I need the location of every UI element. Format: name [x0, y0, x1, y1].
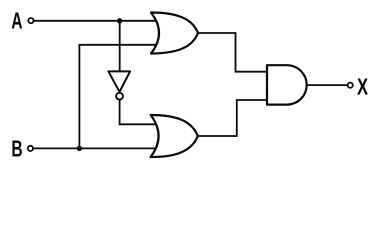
svg-text:B: B — [11, 137, 22, 163]
wire B junction to OR1 bottom input — [79, 45, 158, 149]
OR gate 1 — [151, 13, 198, 54]
wire B input to OR2 bottom input — [31, 147, 159, 149]
wire OR1 output to AND top input — [196, 33, 268, 72]
wire A input to OR1 top input — [31, 20, 158, 22]
terminal A — [28, 18, 33, 23]
svg-text:X: X — [357, 75, 369, 100]
node junction on B wire — [77, 146, 82, 151]
wire OR2 output to AND bottom input — [196, 100, 268, 136]
wire inverter output to OR2 top input — [120, 96, 158, 124]
svg-text:A: A — [11, 9, 22, 35]
node junction on A wire — [117, 18, 122, 23]
wire junction A to inverter input — [119, 21, 121, 72]
AND gate — [267, 65, 307, 104]
wire AND output to X — [306, 84, 350, 86]
terminal B — [28, 146, 33, 151]
OR gate 2 — [151, 115, 198, 157]
terminal X — [348, 83, 353, 88]
inverter U1 — [108, 71, 130, 99]
